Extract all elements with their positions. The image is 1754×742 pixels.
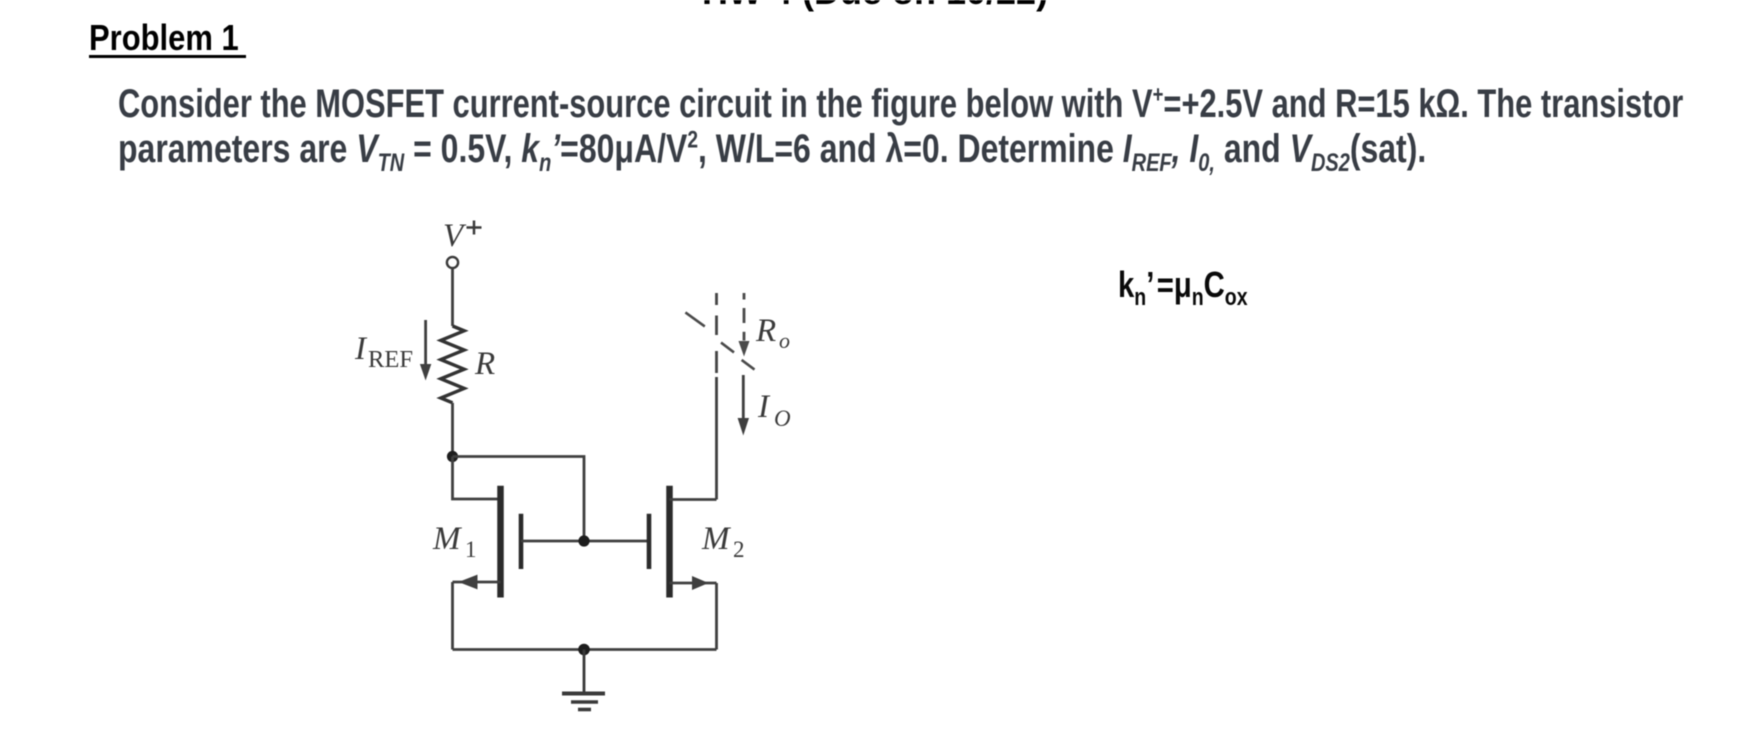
svg-text:o: o bbox=[779, 328, 790, 353]
heading Problem 1 bbox=[89, 20, 263, 56]
M2 channel bar bbox=[666, 486, 673, 598]
svg-text:1: 1 bbox=[465, 537, 477, 562]
problem statement paragraph bbox=[118, 82, 1754, 172]
M1 source lead with arrow bbox=[453, 581, 501, 584]
node V+ label bbox=[443, 218, 467, 254]
svg-text:R: R bbox=[755, 313, 776, 349]
ground rail junction dot bbox=[578, 644, 590, 656]
label M2 bbox=[701, 521, 745, 562]
k_n' = mu_n C_ox formula bbox=[1118, 265, 1248, 305]
transistor M1 bbox=[453, 486, 522, 598]
transistor M2 bbox=[649, 486, 717, 598]
V+ plus sign bbox=[467, 221, 482, 235]
wire node A down to M1 drain bbox=[453, 457, 501, 500]
svg-text:2: 2 bbox=[733, 537, 745, 562]
wire resistor to node A bbox=[451, 403, 454, 457]
cut-off course header "HW 4 (Due on 10/22)" bbox=[702, 0, 1048, 13]
svg-text:R: R bbox=[474, 346, 495, 382]
resistor R bbox=[441, 326, 464, 403]
wire V+ to resistor bbox=[451, 269, 454, 327]
wire node A to gate riser bbox=[453, 457, 585, 542]
ground rail bbox=[453, 648, 717, 651]
current arrow IO bbox=[738, 375, 749, 436]
M2 drain lead bbox=[670, 498, 717, 501]
svg-text:O: O bbox=[774, 406, 791, 431]
M2 source lead with arrow bbox=[670, 582, 717, 585]
M2 gate bar bbox=[647, 514, 652, 569]
svg-text:M: M bbox=[432, 521, 462, 557]
svg-text:REF: REF bbox=[368, 347, 413, 373]
wire M2 source to ground rail bbox=[715, 583, 718, 650]
gate line M1-M2 bbox=[521, 540, 649, 543]
wire M2 drain dashed upper part bbox=[715, 293, 718, 373]
Ro dashed arrow bbox=[739, 293, 750, 357]
svg-text:I: I bbox=[757, 389, 771, 425]
current arrow IREF bbox=[420, 320, 431, 381]
label IREF bbox=[354, 331, 413, 373]
M1 gate bar bbox=[519, 514, 524, 569]
slash crossing out Ro bbox=[685, 312, 754, 369]
svg-text:V: V bbox=[443, 218, 467, 254]
svg-text:I: I bbox=[354, 331, 368, 367]
label IO bbox=[757, 389, 791, 431]
svg-text:M: M bbox=[701, 521, 731, 557]
V+ terminal bbox=[447, 257, 458, 268]
ground bbox=[562, 650, 605, 710]
gate node junction dot bbox=[578, 535, 589, 546]
label M1 bbox=[432, 521, 477, 562]
wire M1 source to ground rail bbox=[451, 582, 454, 650]
wire M2 drain up (solid part) bbox=[715, 377, 718, 500]
label Ro bbox=[755, 313, 790, 353]
node A junction dot bbox=[447, 451, 458, 462]
M1 channel bar bbox=[497, 486, 504, 598]
